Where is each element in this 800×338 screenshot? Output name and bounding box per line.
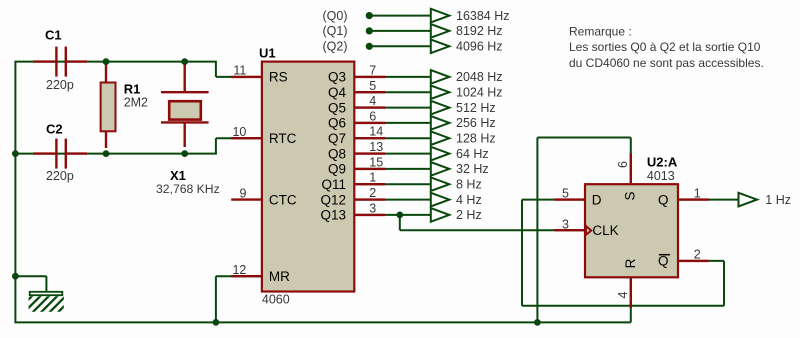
svg-text:(Q0): (Q0) — [323, 9, 348, 23]
svg-text:9: 9 — [239, 186, 246, 200]
svg-text:C1: C1 — [45, 28, 62, 43]
svg-text:1024 Hz: 1024 Hz — [456, 86, 503, 100]
svg-text:Q9: Q9 — [328, 162, 346, 177]
svg-text:(Q1): (Q1) — [323, 24, 348, 38]
svg-text:6: 6 — [616, 161, 630, 168]
svg-text:32,768 KHz: 32,768 KHz — [156, 182, 220, 196]
svg-text:3: 3 — [369, 201, 376, 215]
svg-text:512 Hz: 512 Hz — [456, 101, 496, 115]
svg-text:8 Hz: 8 Hz — [456, 178, 482, 192]
svg-text:128 Hz: 128 Hz — [456, 132, 496, 146]
svg-text:4013: 4013 — [647, 169, 675, 183]
svg-text:CTC: CTC — [269, 192, 297, 207]
svg-text:R: R — [623, 258, 638, 268]
svg-text:3: 3 — [562, 218, 569, 232]
svg-text:10: 10 — [232, 125, 246, 139]
svg-text:220p: 220p — [46, 169, 74, 183]
svg-text:Les sorties Q0 à Q2 et la sort: Les sorties Q0 à Q2 et la sortie Q10 — [569, 40, 761, 54]
svg-text:S: S — [623, 191, 638, 200]
svg-text:5: 5 — [562, 187, 569, 201]
svg-text:Q3: Q3 — [328, 70, 346, 85]
svg-text:4096 Hz: 4096 Hz — [456, 40, 503, 54]
svg-text:8192 Hz: 8192 Hz — [456, 24, 503, 38]
svg-text:Q8: Q8 — [328, 146, 346, 161]
svg-text:4: 4 — [616, 291, 630, 298]
svg-text:2: 2 — [369, 186, 376, 200]
svg-text:CLK: CLK — [592, 223, 618, 238]
svg-text:Q: Q — [658, 254, 669, 269]
svg-text:Q12: Q12 — [320, 192, 346, 207]
svg-text:D: D — [592, 192, 602, 207]
svg-text:13: 13 — [369, 140, 383, 154]
svg-text:U2:A: U2:A — [647, 154, 678, 169]
svg-text:220p: 220p — [46, 78, 74, 92]
svg-text:2 Hz: 2 Hz — [456, 208, 482, 222]
svg-text:32 Hz: 32 Hz — [456, 162, 489, 176]
svg-text:4: 4 — [369, 94, 376, 108]
svg-text:Q7: Q7 — [328, 131, 346, 146]
svg-text:16384 Hz: 16384 Hz — [456, 9, 510, 23]
svg-text:RTC: RTC — [269, 131, 297, 146]
svg-text:Q5: Q5 — [328, 100, 346, 115]
svg-text:(Q2): (Q2) — [323, 40, 348, 54]
svg-text:7: 7 — [369, 63, 376, 77]
svg-text:U1: U1 — [259, 46, 276, 61]
svg-text:Q11: Q11 — [321, 177, 346, 192]
svg-text:64 Hz: 64 Hz — [456, 147, 489, 161]
svg-text:Q13: Q13 — [320, 208, 346, 223]
svg-text:2048 Hz: 2048 Hz — [456, 70, 503, 84]
svg-text:14: 14 — [369, 125, 383, 139]
svg-text:Q4: Q4 — [328, 85, 347, 100]
svg-text:Q6: Q6 — [328, 116, 346, 131]
svg-text:11: 11 — [233, 64, 246, 78]
svg-text:6: 6 — [369, 109, 376, 123]
svg-text:1 Hz: 1 Hz — [765, 193, 791, 207]
svg-text:15: 15 — [369, 155, 383, 169]
svg-text:12: 12 — [232, 263, 246, 277]
svg-text:MR: MR — [269, 269, 290, 284]
svg-text:C2: C2 — [46, 122, 63, 137]
svg-text:Remarque :: Remarque : — [569, 25, 632, 39]
svg-text:4 Hz: 4 Hz — [456, 193, 482, 207]
svg-text:1: 1 — [369, 171, 376, 185]
svg-text:5: 5 — [369, 79, 376, 93]
svg-text:RS: RS — [269, 70, 288, 85]
svg-text:4060: 4060 — [262, 293, 290, 307]
svg-text:R1: R1 — [124, 81, 141, 96]
svg-text:du CD4060 ne sont pas accessib: du CD4060 ne sont pas accessibles. — [569, 56, 764, 70]
svg-text:2M2: 2M2 — [124, 96, 148, 110]
svg-text:X1: X1 — [170, 168, 186, 183]
svg-text:256 Hz: 256 Hz — [456, 116, 496, 130]
svg-text:1: 1 — [694, 186, 701, 200]
svg-text:2: 2 — [694, 248, 701, 262]
svg-text:Q: Q — [658, 192, 669, 207]
